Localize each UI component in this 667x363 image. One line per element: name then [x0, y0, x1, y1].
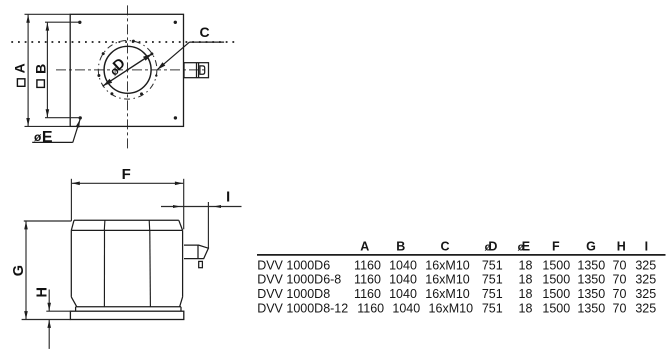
table row DVV 1000D6 [257, 258, 656, 272]
svg-text:F: F [122, 166, 131, 183]
arrowhead I inner-left [173, 205, 181, 208]
fan body cap bevel left [71, 220, 74, 230]
mounting hole bottom-right [174, 116, 177, 119]
skirt slant right [180, 297, 183, 307]
junction box tab [200, 66, 205, 74]
svg-text:18: 18 [519, 302, 533, 316]
svg-text:70: 70 [613, 302, 627, 316]
table row DVV 1000D6-8 [257, 273, 656, 287]
arrowhead F right [175, 182, 183, 186]
panel divider left [103, 230, 105, 306]
dimension B extension line top [45, 21, 80, 23]
arrowhead H up [47, 320, 51, 328]
dimension F line [71, 182, 183, 184]
mounting hole top-right [174, 21, 177, 24]
svg-text:1350: 1350 [577, 302, 605, 316]
svg-text:16xM10: 16xM10 [425, 273, 470, 287]
svg-text:G: G [11, 265, 27, 276]
section dotted line [11, 41, 236, 43]
svg-text:1500: 1500 [542, 302, 570, 316]
fan body cap bevel right [179, 220, 183, 230]
svg-text:16xM10: 16xM10 [425, 258, 470, 272]
svg-text:DVV 1000D8: DVV 1000D8 [257, 287, 330, 301]
svg-text:B: B [33, 64, 49, 74]
junction box (side view) spout [184, 245, 208, 259]
label øE [34, 129, 53, 146]
svg-text:18: 18 [519, 287, 533, 301]
dimension øD diagonal line [103, 54, 153, 87]
svg-text:1500: 1500 [542, 273, 570, 287]
svg-text:1350: 1350 [577, 273, 605, 287]
bolt hole dots [97, 40, 157, 96]
svg-text:DVV 1000D6-8: DVV 1000D6-8 [257, 273, 341, 287]
dimension G extension bottom [22, 319, 71, 321]
dimension B line [46, 22, 48, 118]
dimension H line lower [48, 320, 50, 349]
svg-text:1500: 1500 [542, 287, 570, 301]
svg-text:751: 751 [482, 302, 503, 316]
arrowhead A top [26, 15, 30, 23]
svg-text:1160: 1160 [354, 287, 381, 301]
table data rows [257, 258, 656, 315]
leader øE diagonal [73, 120, 80, 143]
svg-text:DVV 1000D6: DVV 1000D6 [257, 258, 330, 272]
mounting hole top-left [78, 21, 81, 24]
svg-text:16xM10: 16xM10 [425, 287, 470, 301]
svg-text:DVV 1000D8-12: DVV 1000D8-12 [257, 302, 348, 316]
svg-text:1350: 1350 [577, 258, 605, 272]
lip edge left [75, 307, 77, 311]
dimension B extension line bottom [45, 117, 80, 119]
svg-text:E: E [42, 129, 53, 146]
dimension F extension right / I extension left [183, 179, 185, 230]
base plate [70, 311, 183, 319]
svg-text:C: C [440, 239, 449, 253]
cap tick right [148, 220, 151, 230]
svg-text:751: 751 [482, 258, 503, 272]
svg-text:1040: 1040 [389, 258, 417, 272]
svg-text:I: I [226, 189, 230, 205]
svg-text:1040: 1040 [389, 273, 417, 287]
fan body left side [70, 230, 72, 297]
svg-text:1160: 1160 [354, 258, 381, 272]
centerline horizontal (top view) [56, 69, 208, 71]
duct circle [104, 46, 151, 93]
arrowhead øD lower-left [103, 79, 112, 86]
dimension I extension right [207, 202, 209, 248]
lip edge right [180, 307, 182, 311]
svg-text:325: 325 [635, 302, 656, 316]
svg-text:18: 18 [519, 258, 533, 272]
svg-text:751: 751 [482, 287, 503, 301]
dimension H line upper [48, 290, 50, 312]
arrowhead I inner-right [213, 205, 221, 208]
table row DVV 1000D8 [257, 287, 656, 301]
skirt slant left [71, 297, 77, 307]
label øD [108, 55, 128, 78]
svg-text:325: 325 [635, 287, 656, 301]
top view: square flange [70, 14, 183, 126]
svg-text:1040: 1040 [389, 287, 417, 301]
svg-text:1040: 1040 [392, 302, 420, 316]
arrowhead C [157, 62, 165, 70]
svg-text:1160: 1160 [357, 302, 384, 316]
fan body cap bottom [71, 229, 182, 231]
svg-text:70: 70 [613, 287, 627, 301]
svg-text:D: D [488, 239, 497, 253]
arrowhead F left [72, 182, 80, 186]
svg-text:325: 325 [635, 258, 656, 272]
svg-text:A: A [360, 239, 369, 253]
leader øE underline [32, 141, 73, 143]
svg-text:70: 70 [613, 258, 627, 272]
label B with square symbol [33, 64, 49, 88]
fan body cap top [74, 219, 179, 221]
svg-text:G: G [586, 239, 596, 253]
arrowhead øD upper-right [143, 54, 152, 61]
leader C underline [190, 41, 225, 43]
cap tick left [103, 220, 106, 230]
svg-text:1160: 1160 [354, 273, 381, 287]
cable gland [199, 261, 203, 267]
svg-text:751: 751 [482, 273, 503, 287]
svg-text:I: I [645, 239, 648, 253]
svg-text:325: 325 [635, 273, 656, 287]
svg-text:A: A [11, 63, 27, 73]
spout inner line [197, 245, 199, 259]
svg-text:1350: 1350 [577, 287, 605, 301]
bolt circle (dashed) [98, 41, 157, 100]
arrowhead B top [46, 23, 50, 31]
junction box inner line 2 [198, 63, 200, 78]
svg-text:16xM10: 16xM10 [429, 302, 474, 316]
fan body right side [182, 230, 184, 297]
svg-text:1500: 1500 [542, 258, 570, 272]
table header row [360, 239, 648, 253]
svg-text:C: C [199, 24, 209, 40]
dimension H extension top [46, 310, 72, 312]
junction box (top view) [184, 63, 209, 78]
junction box inner line 1 [196, 63, 198, 78]
dimension A extension line top [25, 13, 71, 15]
arrowhead H down [47, 303, 51, 311]
svg-text:18: 18 [519, 273, 533, 287]
panel divider right [149, 230, 152, 306]
svg-text:B: B [396, 239, 405, 253]
svg-text:E: E [522, 239, 530, 253]
table row DVV 1000D8-12 [257, 302, 656, 316]
dimension F extension left [70, 179, 72, 221]
mounting hole bottom-left [79, 116, 82, 119]
svg-text:H: H [35, 287, 51, 297]
leader C diagonal [157, 42, 189, 70]
label A with square symbol [11, 63, 27, 86]
arrowhead G top [24, 221, 28, 229]
arrowhead G bottom [24, 311, 28, 319]
dimension A extension line bottom [25, 125, 71, 127]
arrowhead B bottom [46, 109, 50, 117]
skirt lip line [76, 306, 181, 308]
dimension I line [161, 206, 242, 208]
arrowhead A bottom [26, 118, 30, 126]
svg-text:70: 70 [613, 273, 627, 287]
dimension A line [27, 14, 29, 126]
svg-text:H: H [617, 239, 626, 253]
centerline vertical (top view) [127, 5, 129, 150]
svg-text:F: F [552, 239, 560, 253]
dimension G extension top [24, 220, 72, 222]
arrowhead øE [76, 119, 80, 127]
dimension G line [25, 221, 27, 320]
table header rule [257, 254, 666, 256]
